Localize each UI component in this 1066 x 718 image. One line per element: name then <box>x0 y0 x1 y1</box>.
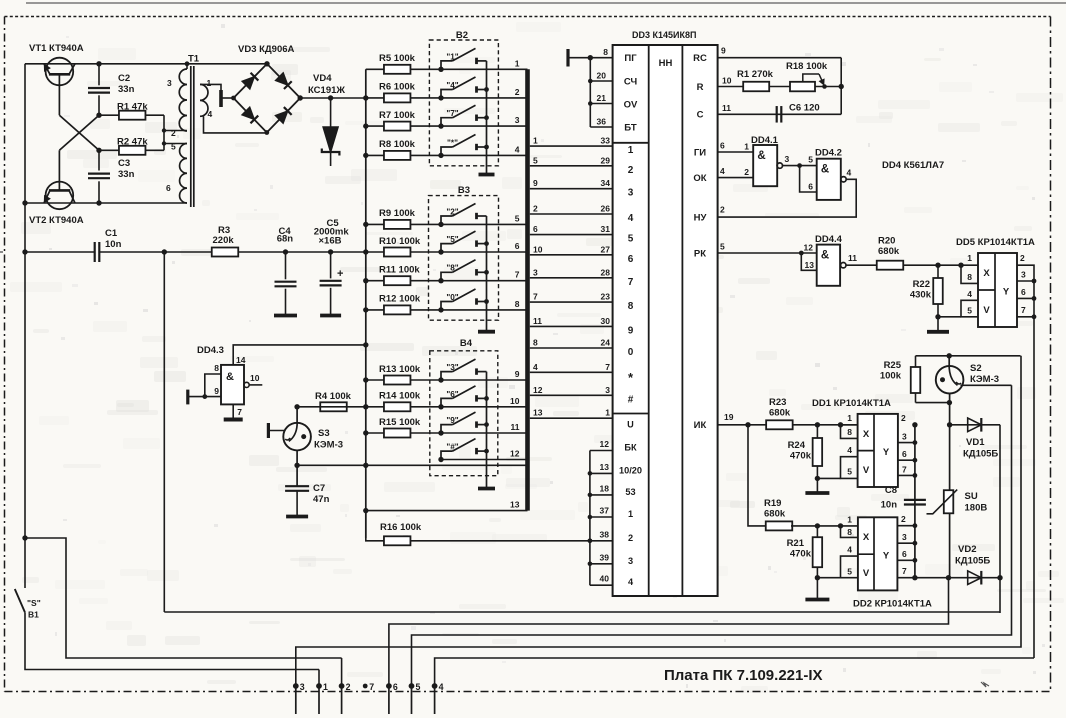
svg-text:DD2 КР1014КТ1А: DD2 КР1014КТ1А <box>853 599 932 610</box>
svg-text:2: 2 <box>744 167 749 177</box>
svg-text:4: 4 <box>515 144 520 154</box>
svg-text:C1: C1 <box>105 228 118 239</box>
svg-text:R11 100k: R11 100k <box>379 265 420 276</box>
svg-text:"3": "3" <box>446 363 458 372</box>
svg-text:680k: 680k <box>878 246 900 257</box>
svg-text:1: 1 <box>628 509 633 519</box>
svg-text:VD3 КД906А: VD3 КД906А <box>238 44 295 55</box>
svg-text:"S": "S" <box>27 598 41 608</box>
svg-text:U: U <box>627 420 634 430</box>
svg-text:1: 1 <box>533 136 538 146</box>
svg-text:53: 53 <box>625 487 635 497</box>
svg-text:B4: B4 <box>460 338 473 349</box>
svg-text:13: 13 <box>533 408 543 418</box>
svg-text:ПГ: ПГ <box>624 53 637 64</box>
svg-text:3: 3 <box>785 154 790 164</box>
svg-text:470k: 470k <box>790 549 812 560</box>
svg-text:&: & <box>821 164 829 176</box>
svg-text:VT2 КТ940А: VT2 КТ940А <box>29 215 84 226</box>
svg-text:V: V <box>863 568 870 579</box>
svg-text:7: 7 <box>515 270 520 280</box>
svg-text:2: 2 <box>901 413 906 423</box>
svg-text:DD4.1: DD4.1 <box>751 135 779 146</box>
svg-text:6: 6 <box>1021 287 1026 297</box>
svg-text:1: 1 <box>847 413 852 423</box>
svg-text:12: 12 <box>600 439 610 449</box>
svg-text:R19: R19 <box>764 498 781 509</box>
svg-text:Плата ПК 7.109.221-IX: Плата ПК 7.109.221-IX <box>664 667 823 684</box>
svg-text:R24: R24 <box>788 440 806 451</box>
svg-text:11: 11 <box>722 103 731 113</box>
svg-text:7: 7 <box>902 465 907 475</box>
svg-text:V: V <box>983 305 990 316</box>
svg-text:"6": "6" <box>446 390 458 399</box>
svg-text:DD4.3: DD4.3 <box>197 345 224 356</box>
svg-text:7: 7 <box>605 362 610 372</box>
svg-text:X: X <box>983 268 990 279</box>
svg-text:33n: 33n <box>118 84 135 95</box>
svg-text:#: # <box>628 394 634 405</box>
svg-text:9: 9 <box>214 386 219 396</box>
svg-text:3: 3 <box>628 556 633 566</box>
svg-text:×16В: ×16В <box>319 236 342 247</box>
svg-text:2: 2 <box>533 204 538 214</box>
svg-text:5: 5 <box>171 142 176 152</box>
svg-text:34: 34 <box>601 178 611 188</box>
svg-text:DD4.2: DD4.2 <box>815 148 842 159</box>
svg-text:5: 5 <box>533 155 538 165</box>
svg-text:T1: T1 <box>188 54 200 65</box>
svg-text:ОК: ОК <box>693 173 706 184</box>
svg-text:2: 2 <box>1020 253 1025 263</box>
svg-text:4: 4 <box>208 109 213 119</box>
svg-text:12: 12 <box>533 385 543 395</box>
svg-text:7: 7 <box>1021 305 1026 315</box>
svg-text:9: 9 <box>515 369 520 379</box>
svg-text:9: 9 <box>628 325 634 336</box>
svg-text:33n: 33n <box>118 169 135 180</box>
svg-text:4: 4 <box>628 213 634 224</box>
svg-text:VD1: VD1 <box>966 437 985 448</box>
svg-text:КЭМ-3: КЭМ-3 <box>970 374 999 385</box>
svg-text:8: 8 <box>214 363 219 373</box>
svg-text:10: 10 <box>533 244 543 254</box>
svg-text:R13 100k: R13 100k <box>379 364 421 375</box>
svg-text:11: 11 <box>533 316 542 326</box>
svg-text:8: 8 <box>515 299 520 309</box>
svg-text:2: 2 <box>171 128 176 138</box>
svg-text:"7": "7" <box>446 109 458 118</box>
svg-text:10: 10 <box>722 75 732 85</box>
svg-text:КД105Б: КД105Б <box>955 556 990 567</box>
svg-text:10/20: 10/20 <box>619 465 642 475</box>
svg-text:4: 4 <box>967 289 972 299</box>
svg-text:2: 2 <box>901 514 906 524</box>
svg-text:12: 12 <box>804 243 814 253</box>
svg-text:B1: B1 <box>28 610 39 620</box>
svg-text:Y: Y <box>883 447 890 458</box>
svg-text:31: 31 <box>601 224 611 234</box>
svg-text:1: 1 <box>744 142 749 152</box>
svg-text:"2": "2" <box>446 207 458 216</box>
svg-text:C3: C3 <box>118 158 130 169</box>
svg-text:КС191Ж: КС191Ж <box>308 85 345 96</box>
svg-text:R2 47k: R2 47k <box>117 137 148 148</box>
svg-text:33: 33 <box>601 136 611 146</box>
svg-text:680k: 680k <box>764 509 786 520</box>
svg-text:R9 100k: R9 100k <box>379 208 416 219</box>
svg-text:2: 2 <box>346 682 351 692</box>
svg-text:VD4: VD4 <box>313 73 332 84</box>
svg-text:1: 1 <box>605 408 610 418</box>
svg-text:R10 100k: R10 100k <box>379 236 421 247</box>
svg-text:8: 8 <box>533 338 538 348</box>
svg-text:C7: C7 <box>313 483 325 494</box>
svg-text:R1 47k: R1 47k <box>117 102 148 113</box>
svg-text:5: 5 <box>628 234 634 245</box>
svg-text:КД105Б: КД105Б <box>963 449 998 460</box>
svg-text:20: 20 <box>597 71 607 81</box>
svg-text:Y: Y <box>883 551 890 562</box>
svg-text:13: 13 <box>510 500 520 510</box>
svg-text:18: 18 <box>600 483 610 493</box>
svg-text:7: 7 <box>628 277 634 288</box>
svg-text:2: 2 <box>628 533 633 543</box>
svg-text:2: 2 <box>515 87 520 97</box>
svg-text:R1 270k: R1 270k <box>737 69 774 80</box>
svg-text:9: 9 <box>533 178 538 188</box>
svg-text:DD5 КР1014КТ1А: DD5 КР1014КТ1А <box>956 237 1035 248</box>
svg-text:S2: S2 <box>970 363 982 374</box>
svg-text:R12 100k: R12 100k <box>379 294 421 305</box>
svg-text:НУ: НУ <box>694 212 707 223</box>
svg-text:8: 8 <box>847 527 852 537</box>
svg-text:S3: S3 <box>318 428 330 439</box>
svg-text:30: 30 <box>601 316 611 326</box>
svg-text:5: 5 <box>416 682 421 692</box>
svg-text:"5": "5" <box>446 235 458 244</box>
svg-text:НН: НН <box>659 58 673 69</box>
svg-text:"0": "0" <box>446 293 458 302</box>
svg-text:ГИ: ГИ <box>694 147 706 158</box>
svg-text:C8: C8 <box>885 485 897 496</box>
svg-text:X: X <box>863 532 870 543</box>
svg-text:DD1 КР1014КТ1А: DD1 КР1014КТ1А <box>812 398 891 409</box>
svg-text:1: 1 <box>515 58 520 68</box>
svg-text:R22: R22 <box>913 279 930 290</box>
svg-text:B2: B2 <box>456 30 468 41</box>
svg-text:5: 5 <box>847 567 852 577</box>
svg-text:100k: 100k <box>880 371 902 382</box>
svg-text:3: 3 <box>167 78 172 88</box>
svg-text:R21: R21 <box>787 538 805 549</box>
svg-text:7: 7 <box>902 566 907 576</box>
svg-text:1: 1 <box>207 78 212 88</box>
svg-text:4: 4 <box>439 682 444 692</box>
svg-text:6: 6 <box>393 682 398 692</box>
svg-text:8: 8 <box>603 47 608 57</box>
svg-text:29: 29 <box>601 155 611 165</box>
svg-text:5: 5 <box>720 242 725 252</box>
svg-text:&: & <box>226 371 234 383</box>
svg-text:10n: 10n <box>105 239 122 250</box>
svg-text:R4 100k: R4 100k <box>315 391 352 402</box>
svg-text:36: 36 <box>597 117 607 127</box>
svg-text:2: 2 <box>628 165 634 176</box>
svg-text:R16 100k: R16 100k <box>380 522 422 533</box>
svg-text:R18 100k: R18 100k <box>786 61 828 72</box>
svg-text:R25: R25 <box>884 360 902 371</box>
svg-text:R8 100k: R8 100k <box>379 139 416 150</box>
svg-text:&: & <box>757 150 765 162</box>
svg-text:3: 3 <box>902 432 907 442</box>
svg-text:6: 6 <box>720 141 725 151</box>
svg-text:VD2: VD2 <box>958 544 976 555</box>
svg-text:180В: 180В <box>965 503 988 514</box>
svg-text:1: 1 <box>847 515 852 525</box>
svg-text:ИК: ИК <box>694 420 707 431</box>
svg-text:"9": "9" <box>446 416 458 425</box>
svg-text:5: 5 <box>847 467 852 477</box>
svg-text:6: 6 <box>166 183 171 193</box>
svg-text:C2: C2 <box>118 73 130 84</box>
svg-text:DD3 К145ИК8П: DD3 К145ИК8П <box>632 30 696 40</box>
svg-text:3: 3 <box>515 115 520 125</box>
svg-text:37: 37 <box>600 506 610 516</box>
svg-text:"8": "8" <box>446 264 458 273</box>
svg-text:23: 23 <box>601 292 611 302</box>
svg-text:430k: 430k <box>910 290 932 301</box>
svg-text:Y: Y <box>1003 287 1010 298</box>
svg-text:4: 4 <box>533 362 538 372</box>
svg-text:3: 3 <box>902 532 907 542</box>
svg-text:680k: 680k <box>769 408 791 419</box>
svg-text:C6 120: C6 120 <box>789 103 820 114</box>
svg-text:OV: OV <box>624 100 638 111</box>
svg-text:SU: SU <box>965 491 978 502</box>
svg-text:470k: 470k <box>790 451 812 462</box>
svg-text:220k: 220k <box>213 235 235 246</box>
svg-text:3: 3 <box>533 267 538 277</box>
svg-text:6: 6 <box>902 449 907 459</box>
svg-text:C: C <box>697 110 704 121</box>
svg-text:21: 21 <box>597 93 607 103</box>
svg-text:СЧ: СЧ <box>624 77 638 88</box>
svg-text:4: 4 <box>628 577 634 587</box>
svg-text:X: X <box>863 429 870 440</box>
svg-text:8: 8 <box>628 301 634 312</box>
svg-text:5: 5 <box>515 213 520 223</box>
svg-text:5: 5 <box>808 155 813 165</box>
svg-text:R7 100k: R7 100k <box>379 110 416 121</box>
svg-text:1: 1 <box>967 253 972 263</box>
svg-text:КЭМ-3: КЭМ-3 <box>314 440 343 451</box>
svg-text:R15 100k: R15 100k <box>379 417 421 428</box>
svg-text:B3: B3 <box>458 185 470 196</box>
svg-text:R5 100k: R5 100k <box>379 53 416 64</box>
svg-text:&: & <box>821 250 829 262</box>
svg-text:RC: RC <box>693 53 707 64</box>
svg-text:V: V <box>863 465 870 476</box>
svg-text:9: 9 <box>721 46 726 56</box>
svg-text:10: 10 <box>250 373 260 383</box>
svg-text:3: 3 <box>605 385 610 395</box>
svg-text:3: 3 <box>628 188 634 199</box>
svg-text:11: 11 <box>511 422 520 432</box>
svg-text:R20: R20 <box>878 236 895 247</box>
svg-text:28: 28 <box>601 267 611 277</box>
svg-text:4: 4 <box>847 445 852 455</box>
svg-text:"*": "*" <box>447 138 458 147</box>
svg-text:27: 27 <box>601 244 611 254</box>
svg-text:R6 100k: R6 100k <box>379 82 416 93</box>
svg-text:38: 38 <box>600 529 610 539</box>
svg-text:DD4 К561ЛА7: DD4 К561ЛА7 <box>882 160 944 171</box>
svg-text:10n: 10n <box>881 500 898 511</box>
svg-text:R23: R23 <box>769 397 786 408</box>
svg-text:R: R <box>697 82 704 93</box>
svg-text:4: 4 <box>847 545 852 555</box>
svg-text:5: 5 <box>967 306 972 316</box>
svg-text:7: 7 <box>237 407 242 417</box>
svg-text:DD4.4: DD4.4 <box>815 234 843 245</box>
svg-text:10: 10 <box>510 396 520 406</box>
svg-text:РК: РК <box>694 248 706 259</box>
svg-text:13: 13 <box>600 462 610 472</box>
svg-text:7: 7 <box>369 682 374 692</box>
svg-text:12: 12 <box>510 449 520 459</box>
svg-text:14: 14 <box>236 355 246 365</box>
svg-text:8: 8 <box>967 272 972 282</box>
svg-text:БК: БК <box>624 443 637 453</box>
svg-text:1: 1 <box>323 682 328 692</box>
svg-text:40: 40 <box>600 574 610 584</box>
svg-text:6: 6 <box>902 549 907 559</box>
svg-text:4: 4 <box>720 166 725 176</box>
svg-text:39: 39 <box>600 552 610 562</box>
svg-text:47n: 47n <box>313 494 330 505</box>
svg-text:13: 13 <box>805 260 815 270</box>
svg-text:26: 26 <box>601 204 611 214</box>
svg-text:6: 6 <box>808 182 813 192</box>
svg-text:3: 3 <box>300 682 305 692</box>
svg-text:6: 6 <box>628 254 634 265</box>
svg-text:0: 0 <box>628 347 634 358</box>
svg-text:"#": "#" <box>446 443 458 452</box>
svg-text:24: 24 <box>601 338 611 348</box>
svg-text:4: 4 <box>847 168 852 178</box>
svg-text:1: 1 <box>628 145 634 156</box>
svg-text:6: 6 <box>515 241 520 251</box>
svg-text:VT1 КТ940А: VT1 КТ940А <box>29 43 84 54</box>
svg-text:БТ: БТ <box>624 123 637 134</box>
svg-text:3: 3 <box>1021 270 1026 280</box>
svg-text:19: 19 <box>724 412 734 422</box>
svg-text:11: 11 <box>848 253 857 263</box>
svg-text:68n: 68n <box>277 234 294 245</box>
svg-text:"4": "4" <box>446 81 458 90</box>
svg-text:7: 7 <box>533 292 538 302</box>
svg-text:+: + <box>337 268 343 280</box>
svg-text:8: 8 <box>847 427 852 437</box>
svg-text:R14 100k: R14 100k <box>379 391 421 402</box>
svg-text:"1": "1" <box>446 52 458 61</box>
svg-text:6: 6 <box>533 224 538 234</box>
svg-text:2: 2 <box>720 205 725 215</box>
